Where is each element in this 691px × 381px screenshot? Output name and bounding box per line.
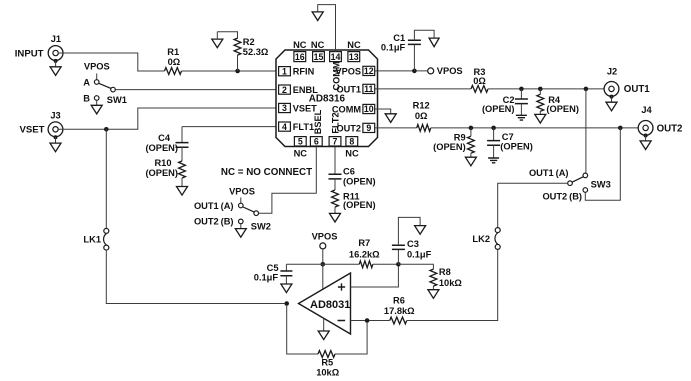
svg-text:8: 8 [349,136,354,146]
svg-text:0Ω: 0Ω [168,57,181,67]
svg-text:J2: J2 [607,66,617,76]
pin 1 RFIN [279,66,315,76]
wire OUT2 to SW3 B [585,128,620,200]
wire R1 to pin 1 [182,70,278,72]
jumper LK2 [472,228,500,250]
resistor R8 10kohm [430,267,462,288]
svg-text:13: 13 [349,52,359,62]
ground at SW1 B [91,100,102,114]
svg-text:SW3: SW3 [591,179,611,189]
svg-text:12: 12 [364,66,374,76]
resistor R4 (OPEN) [537,89,579,114]
node SW3 branch on OUT2 [618,126,623,131]
wire SW1 to pin 2 ENBL [115,89,277,91]
op-amp U2 AD8031 [299,273,351,334]
node VSET branch [104,127,109,132]
pin 14 [330,52,342,62]
svg-text:OUT2 (B): OUT2 (B) [194,217,234,227]
wire pin 9 OUT2 to R12 [375,127,417,129]
pin 7 [329,136,341,146]
capacitor C2 (OPEN) [482,89,528,114]
connector J4 (OUT2 BNC) [638,105,682,135]
svg-text:VSET: VSET [19,125,44,136]
resistor R9 (OPEN) [433,128,474,153]
svg-text:C3: C3 [407,239,419,249]
svg-text:C5: C5 [267,263,279,273]
wire J1 to R1 [58,53,164,71]
pin 8 [346,136,358,146]
svg-text:(OPEN): (OPEN) [546,104,579,114]
wire R5 to -input node [335,323,367,354]
wire pin 4 FLT1 to C4 [182,127,277,143]
ground at J4 [640,134,651,150]
ground at R10 [177,178,188,195]
switch SW3 [529,168,611,202]
svg-text:NC: NC [311,40,325,50]
ground at C1 [429,38,439,47]
svg-text:4: 4 [282,122,287,132]
pin 5 [294,136,306,146]
wire output to R5 [287,306,318,354]
resistor R7 16.2kohm [349,238,380,267]
svg-text:7: 7 [333,136,338,146]
svg-text:0.1μF: 0.1μF [254,273,279,283]
ground at R2 [212,32,223,48]
wire pin 12 to VPOS terminal [375,70,428,72]
svg-text:R2: R2 [243,37,255,47]
svg-text:(OPEN): (OPEN) [433,142,466,152]
pin 12 VPOS [335,66,374,76]
svg-text:A: A [83,77,90,87]
svg-text:10: 10 [364,104,374,114]
ground at R9 [465,153,476,166]
node SW3 branch on OUT1 [584,87,589,92]
svg-text:C1: C1 [393,33,405,43]
wire J3 to pin 3 VSET [58,108,277,129]
wire VPOS to supply node [322,249,324,264]
svg-text:NC: NC [294,149,308,159]
svg-text:NC: NC [345,149,359,159]
wire supply node to op-amp [322,264,324,289]
svg-text:OUT1 (A): OUT1 (A) [529,168,569,178]
node -input R5 branch [365,318,370,323]
wire C5 to R7 [286,263,359,265]
wire R2 to junction [237,55,239,71]
pin 13 [348,52,360,62]
svg-text:0Ω: 0Ω [415,111,428,121]
pin 15 [313,52,325,62]
capacitor C7 (OPEN) [487,128,533,152]
svg-text:14: 14 [331,52,341,62]
svg-text:VPOS: VPOS [229,187,255,197]
pin 2 ENBL [279,85,319,95]
wire C4 to R10 [181,147,183,161]
VPOS terminal [428,66,463,76]
pin 3 VSET [279,103,318,113]
svg-text:10kΩ: 10kΩ [316,368,340,378]
wire +input [351,267,399,287]
node C1 junction [412,69,417,74]
ground at SW2 B [235,224,246,238]
svg-text:NC: NC [347,40,361,50]
svg-text:RFIN: RFIN [293,67,315,77]
svg-text:C4: C4 [158,133,171,143]
pin 16 [294,52,306,62]
node C2 junction [519,87,524,92]
resistor R5 10kohm [316,351,340,378]
wire pin 7 FLT2 to C6 [334,146,336,174]
svg-text:OUT1: OUT1 [624,84,650,95]
wire SW2 to pin 6 BSEL [259,146,317,213]
resistor R2 52.3ohm [234,37,269,57]
ground at R11 [330,207,341,222]
capacitor C1 0.1uF [381,33,421,53]
svg-text:R1: R1 [167,47,179,57]
svg-text:11: 11 [364,84,373,94]
wire pin 11 OUT1 to R3 [375,88,471,90]
svg-text:(OPEN): (OPEN) [145,143,178,153]
svg-text:COMM: COMM [331,61,341,90]
svg-text:OUT2 (B): OUT2 (B) [542,191,582,201]
ground at R4 [535,111,546,123]
svg-text:C6: C6 [343,166,355,176]
svg-text:R9: R9 [454,133,466,143]
svg-text:0Ω: 0Ω [473,76,486,86]
wire R7 to +input node [373,263,399,265]
connector J2 (OUT1 BNC) [604,66,650,96]
capacitor C4 (OPEN) [145,133,188,153]
ground at op-amp [318,318,329,339]
node R1/R2/RFIN junction [235,69,240,74]
jumper LK1 [83,228,108,250]
svg-text:OUT2: OUT2 [657,123,683,134]
connector J1 (INPUT BNC) [15,34,63,60]
wire LK1 to op-amp output [106,250,284,303]
svg-text:3: 3 [282,103,287,113]
ground at C7 [488,145,499,163]
svg-text:NC: NC [293,40,307,50]
resistor R10 (OPEN) [145,158,185,178]
switch SW2 [194,198,271,232]
svg-text:0.1μF: 0.1μF [381,43,406,53]
svg-text:LK1: LK1 [83,234,101,244]
svg-text:16.2kΩ: 16.2kΩ [349,250,380,260]
wire OUT1 to SW3 A [585,89,587,173]
svg-text:52.3Ω: 52.3Ω [243,47,269,57]
svg-text:J3: J3 [50,110,60,120]
svg-text:B: B [83,93,90,103]
svg-text:J1: J1 [51,34,61,44]
svg-text:R5: R5 [321,358,333,368]
capacitor C6 (OPEN) [329,166,376,186]
wire pin 14 COMM to ground [318,5,336,52]
ground at J1 [50,59,61,76]
svg-text:R6: R6 [393,296,405,306]
wire SW3 common to LK2 [498,183,568,227]
wire -input to R6 [351,320,390,322]
pin 9 OUT2 [336,123,374,133]
svg-text:VPOS: VPOS [84,62,110,72]
wire R3 to J2 [488,88,609,90]
svg-text:(OPEN): (OPEN) [343,200,376,210]
resistor R1 0ohm [165,47,182,74]
node R4 junction [538,87,543,92]
svg-text:(OPEN): (OPEN) [145,168,178,178]
svg-text:SW2: SW2 [251,221,271,231]
svg-text:J4: J4 [641,105,652,115]
svg-text:15: 15 [314,52,324,62]
svg-text:INPUT: INPUT [15,48,44,59]
wire pin 10 COMM to ground [375,109,391,114]
svg-text:6: 6 [314,136,319,146]
svg-text:BSEL: BSEL [313,109,323,134]
wire R12 to J4 [431,127,643,129]
resistor R12 0ohm [413,101,431,132]
node R9 junction [469,126,474,131]
svg-text:VPOS: VPOS [312,231,338,241]
pin 6 [310,136,322,146]
wire +input node to R8 [398,264,433,269]
ground at C2 [516,104,527,121]
VPOS terminal at op-amp [312,231,338,249]
switch SW1 [83,74,127,106]
wire ground to R2 [217,32,237,39]
resistor R6 17.8kohm [384,296,415,324]
node C7 junction [491,126,496,131]
svg-text:16: 16 [295,52,305,62]
pin 11 OUT1 [336,84,374,94]
resistor R3 0ohm [471,67,488,93]
svg-text:NC = NO CONNECT: NC = NO CONNECT [221,167,312,178]
node op-amp supply [321,262,326,267]
svg-text:1: 1 [282,66,287,76]
node +input [396,262,401,267]
ground at C3 [415,226,426,235]
wire C6 to R11 [334,179,336,190]
ground at C5 [281,276,292,293]
svg-text:0.1μF: 0.1μF [407,249,432,259]
svg-text:2: 2 [282,85,287,95]
wire LK2 to R6 [407,249,498,320]
resistor R11 (OPEN) [332,190,376,210]
svg-text:R7: R7 [358,238,370,248]
pin 10 COMM [332,104,375,114]
svg-text:(OPEN): (OPEN) [500,142,533,152]
svg-text:10kΩ: 10kΩ [439,278,463,288]
svg-text:5: 5 [298,136,303,146]
svg-text:OUT1 (A): OUT1 (A) [194,201,234,211]
connector J3 (VSET BNC) [19,110,62,136]
ground at pin 14 [312,12,323,21]
svg-text:SW1: SW1 [107,95,127,105]
svg-text:R8: R8 [439,267,451,277]
svg-text:ENBL: ENBL [293,85,318,95]
ground at J2 [606,95,617,111]
svg-text:VPOS: VPOS [437,66,463,76]
op-amp U1 AD8316 body [276,50,378,147]
wire C1 to VPOS node [413,44,415,71]
svg-text:FLT2: FLT2 [331,112,341,133]
svg-text:(OPEN): (OPEN) [343,177,376,187]
pin 4 FLT1 [279,122,314,132]
svg-text:AD8031: AD8031 [310,299,350,311]
svg-text:FLT1: FLT1 [293,122,314,132]
wire C3 to ground [398,217,420,245]
svg-text:R12: R12 [413,101,430,111]
ground at J3 [50,135,61,152]
wire VSET to LK1 [105,129,107,228]
svg-text:(OPEN): (OPEN) [482,104,515,114]
node op-amp output [284,301,289,306]
ground at pin 10 [385,114,396,123]
wire C1 to ground [414,30,434,40]
ground at R8 [428,286,439,298]
svg-text:R10: R10 [154,158,171,168]
svg-text:17.8kΩ: 17.8kΩ [384,306,415,316]
svg-text:9: 9 [366,123,371,133]
capacitor C3 0.1uF [392,239,432,264]
svg-text:LK2: LK2 [472,234,490,244]
capacitor C5 0.1uF [254,263,293,283]
